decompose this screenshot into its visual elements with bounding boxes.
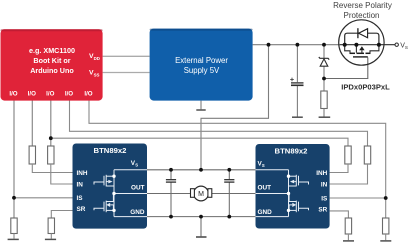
ground C1 xyxy=(292,116,303,118)
svg-text:Reverse Polarity: Reverse Polarity xyxy=(333,1,392,10)
MOSFET drain jog xyxy=(370,45,379,53)
wire I/O1 column xyxy=(13,101,15,219)
wire zener column xyxy=(323,45,325,59)
node dot zener-gate junction xyxy=(322,77,326,81)
svg-text:I/O: I/O xyxy=(46,90,54,97)
wire VS rail through MOSFET xyxy=(340,44,395,46)
wire I/O2 column xyxy=(31,101,33,147)
ground bridge (center bottom) xyxy=(200,217,202,237)
MOSFET body stub xyxy=(355,45,357,53)
wire capacitor C1 column xyxy=(296,45,298,82)
wire R6 to INH right xyxy=(330,164,348,173)
svg-text:S: S xyxy=(135,163,138,168)
wire R2 to IN left xyxy=(51,164,73,184)
node dots on supply rail xyxy=(267,43,271,47)
svg-text:I/O: I/O xyxy=(28,90,36,97)
ground R8 xyxy=(343,240,354,242)
wire VS branch down-left to bridge supply xyxy=(201,45,269,170)
zener diode D1 xyxy=(319,57,329,60)
wire supply rail VS xyxy=(253,44,340,46)
node dots on VS rail inside circle xyxy=(343,43,347,47)
wire I/O3 to INH right xyxy=(51,138,348,146)
half-bridge internals right (mirrored) xyxy=(256,170,309,217)
resistor R6 (INH right) xyxy=(345,146,351,164)
FET high-side right xyxy=(299,182,309,185)
svg-text:SS: SS xyxy=(94,72,100,77)
node I/O3 junction xyxy=(49,136,53,140)
svg-text:IN: IN xyxy=(321,181,328,188)
half-bridge internals left xyxy=(94,170,147,217)
capacitor C1 plates xyxy=(291,82,304,84)
node dots on GND bridge rail xyxy=(169,215,173,219)
wire GND bridge rail xyxy=(147,216,256,218)
svg-text:BTN89x2: BTN89x2 xyxy=(275,147,308,156)
svg-text:INH: INH xyxy=(316,170,327,177)
wire VS bridge rail xyxy=(147,169,256,171)
wire OUT left segment xyxy=(147,193,191,195)
wire OUT right segment xyxy=(212,193,256,195)
resistor R1 (INH left) xyxy=(29,146,35,164)
svg-text:GND: GND xyxy=(258,209,273,216)
box BTN89x2 left U1 xyxy=(73,144,148,229)
capacitor C3 plates xyxy=(224,179,234,181)
svg-text:Protection: Protection xyxy=(343,11,379,20)
ground R9 xyxy=(380,240,391,242)
ground R4 xyxy=(45,238,56,240)
svg-text:Arduino Uno: Arduino Uno xyxy=(30,66,74,75)
resistor R3 (IS left shunt) xyxy=(11,218,17,234)
resistor R5 (gate pulldown) xyxy=(321,91,327,109)
wire gate of reverse-polarity MOSFET xyxy=(324,58,368,79)
node dots on VS bridge rail xyxy=(169,168,173,172)
svg-text:e.g. XMC1100: e.g. XMC1100 xyxy=(29,46,75,55)
ground supply (below blue box) xyxy=(200,101,202,110)
ground zener chain xyxy=(319,116,331,118)
wire I/O3 column xyxy=(50,101,52,147)
svg-text:S: S xyxy=(262,163,265,168)
svg-text:INH: INH xyxy=(77,170,88,177)
MOSFET body arrow xyxy=(359,46,364,50)
svg-text:External Power: External Power xyxy=(175,56,228,65)
wire R1 to INH left xyxy=(32,164,72,173)
svg-text:Supply 5V: Supply 5V xyxy=(184,66,220,75)
ground R3 xyxy=(8,238,19,240)
svg-text:SR: SR xyxy=(318,206,327,213)
svg-text:IPDx0P03PxL: IPDx0P03PxL xyxy=(341,83,390,92)
resistor R8 (SR right) xyxy=(345,218,351,234)
wire IS right xyxy=(330,197,386,199)
svg-text:I/O: I/O xyxy=(65,90,73,97)
wire R7 to IN right xyxy=(330,164,368,184)
wire SR left xyxy=(51,211,72,219)
body diode symbol xyxy=(359,29,368,38)
MOSFET gate bar xyxy=(353,56,368,58)
svg-text:GND: GND xyxy=(130,209,145,216)
svg-text:Boot Kit or: Boot Kit or xyxy=(33,56,70,65)
svg-text:IS: IS xyxy=(321,195,328,202)
capacitor C1 plus sign xyxy=(290,78,294,82)
svg-text:IN: IN xyxy=(77,181,84,188)
svg-text:I/O: I/O xyxy=(9,90,17,97)
MOSFET channel dashes xyxy=(350,52,356,54)
box external power supply xyxy=(150,29,253,101)
svg-text:DD: DD xyxy=(94,56,100,61)
box microcontroller (e.g. XMC1100) xyxy=(1,29,103,100)
capacitor C3 column xyxy=(228,170,230,179)
svg-text:OUT: OUT xyxy=(131,185,145,192)
resistor R7 (IN right) xyxy=(364,146,370,164)
wire VDD (red box to supply) xyxy=(103,55,150,57)
body diode loop xyxy=(345,33,379,45)
resistor R2 (IN left) xyxy=(48,146,54,164)
FET low-side right xyxy=(299,208,309,210)
wire I/O5 to IS right xyxy=(89,101,386,219)
node IS right junction xyxy=(384,196,388,200)
terminal VS open circle xyxy=(395,43,398,46)
wire I/O4 to IN right xyxy=(70,101,368,147)
resistor R4 (SR left) xyxy=(48,218,54,234)
node IS left junction xyxy=(12,196,16,200)
svg-text:S: S xyxy=(405,45,408,50)
wire VSS (red box to supply) xyxy=(103,72,150,74)
wire SR right xyxy=(330,211,349,218)
capacitor C2 plates xyxy=(166,179,176,181)
op: reverse polarity MOSFET Q1 circle xyxy=(339,20,384,65)
wire IS left xyxy=(14,197,73,199)
capacitor C2 column xyxy=(170,170,172,179)
resistor R9 (IS right shunt) xyxy=(383,218,389,234)
svg-text:M: M xyxy=(198,191,204,198)
FET high-side left xyxy=(94,182,104,185)
svg-text:OUT: OUT xyxy=(258,185,272,192)
svg-text:SR: SR xyxy=(77,206,86,213)
svg-text:IS: IS xyxy=(77,195,84,202)
MOSFET source jog xyxy=(345,45,350,53)
box BTN89x2 right U2 xyxy=(256,144,330,229)
FET low-side left xyxy=(94,208,104,210)
svg-text:BTN89x2: BTN89x2 xyxy=(94,146,127,155)
svg-text:I/O: I/O xyxy=(84,90,92,97)
motor M1 xyxy=(191,186,212,201)
